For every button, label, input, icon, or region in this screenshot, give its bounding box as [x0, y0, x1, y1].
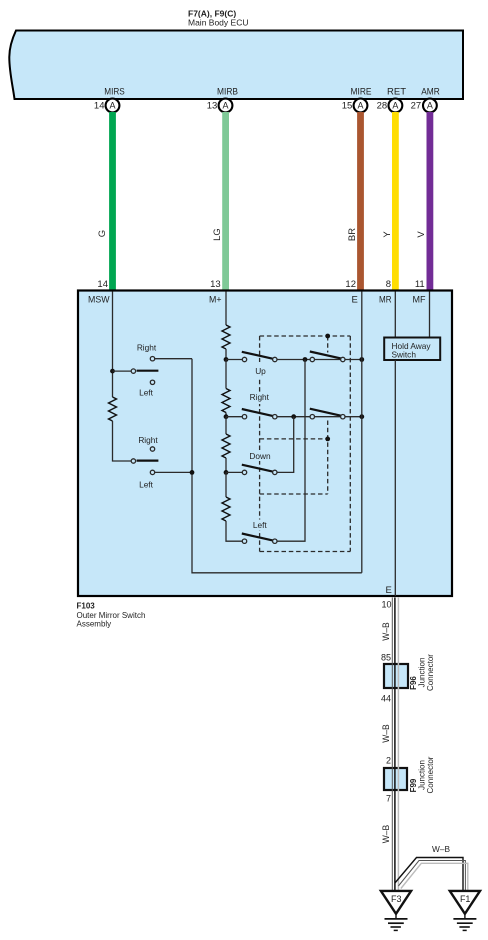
wire label 12 at box — [345, 279, 356, 290]
wire MR vertical to Hold Away Switch — [394, 292, 396, 338]
wire Up contact to E — [277, 359, 362, 361]
box pin label M+ — [209, 295, 222, 306]
switch Down pivot circle — [242, 470, 246, 474]
wire M+ vertical top — [225, 292, 227, 326]
switch S1 lever — [137, 370, 159, 372]
switch S2 Left contact — [150, 470, 154, 474]
ECU connector band F7/F9 Main Body ECU — [9, 31, 463, 100]
resistor R5 — [222, 497, 230, 521]
wire label 14 at box — [97, 279, 108, 290]
junction connector F96 — [381, 653, 408, 704]
svg-text:F3: F3 — [391, 894, 402, 904]
svg-text:Right: Right — [138, 435, 158, 445]
pin 13 connector A circle — [207, 99, 233, 113]
pin label MIRS — [104, 86, 125, 97]
svg-text:7: 7 — [386, 794, 391, 804]
svg-text:Switch: Switch — [392, 350, 417, 360]
svg-text:14: 14 — [97, 279, 108, 290]
svg-text:F103: F103 — [77, 602, 96, 611]
wire MSW vertical — [112, 292, 114, 398]
wire Y yellow RET to MR — [392, 112, 399, 290]
wire label 13 at box — [210, 279, 221, 290]
pin 14 connector A circle — [94, 99, 119, 113]
switch S1 Right contact — [150, 357, 154, 361]
box pin label MF — [413, 295, 426, 306]
resistor R2 (M+ top) — [222, 325, 230, 349]
label Main Body ECU — [188, 18, 248, 28]
node dot x305 Up row — [303, 357, 308, 362]
wire R4 to Down row — [225, 458, 227, 472]
wire LG light green MIRB to M+ — [222, 112, 229, 290]
switch Right2 lever — [310, 409, 342, 416]
svg-text:G: G — [97, 230, 108, 237]
switch Up contact — [273, 357, 277, 361]
node M+ dot Down row — [224, 470, 229, 475]
switch Right row: wire M+ to pivot — [226, 416, 242, 418]
wire S2 Left contact to vertical bus — [155, 471, 192, 473]
svg-text:11: 11 — [415, 279, 425, 290]
switch Left contact — [273, 539, 277, 543]
wire MF vertical to Hold Away Switch — [429, 292, 431, 338]
wire label W-B middle — [381, 724, 392, 743]
svg-text:Right: Right — [250, 392, 270, 402]
svg-text:W–B: W–B — [381, 825, 392, 844]
svg-text:Down: Down — [249, 451, 271, 461]
box pin label E — [351, 295, 357, 306]
node linkage dot y439 — [325, 437, 330, 442]
label Right (row) — [248, 392, 271, 404]
node linkage dot top — [325, 334, 330, 339]
wire label W-B branch — [432, 844, 450, 854]
svg-text:2: 2 — [386, 756, 391, 766]
switch Right contact — [273, 415, 277, 419]
label Down — [247, 451, 273, 462]
pin label AMR — [421, 86, 440, 97]
mechanical linkage dashed top horizontal — [260, 335, 351, 337]
switch S1 Left contact — [150, 380, 154, 384]
svg-text:RET: RET — [387, 86, 406, 97]
switch Up lever — [242, 352, 273, 359]
node bus dot at Left contact row — [190, 470, 195, 475]
label F7(A), F9(C) — [188, 9, 236, 19]
label Right (S1) — [137, 343, 157, 353]
label F96 — [409, 676, 418, 690]
svg-text:15: 15 — [342, 100, 353, 111]
wire R2 to Up row — [225, 349, 227, 360]
switch Right2 contact — [341, 415, 345, 419]
label 10 bottom pin — [381, 600, 391, 610]
svg-text:Left: Left — [139, 479, 154, 489]
wire M+ dot down — [225, 417, 227, 434]
hold away switch box — [384, 338, 440, 361]
svg-text:Up: Up — [255, 366, 266, 376]
junction connector F99 — [384, 756, 407, 804]
svg-text:Y: Y — [382, 231, 393, 238]
wire M+ dot down — [225, 472, 227, 497]
switch Left lever — [242, 534, 273, 541]
wire Left contact up to Up row — [277, 360, 305, 542]
label Right (S2) — [138, 435, 158, 445]
label Left (S2) — [139, 479, 154, 489]
switch Up2 contact — [341, 357, 345, 361]
svg-text:A: A — [427, 101, 433, 111]
switch S2 mirror select lower: pivot circle — [131, 459, 135, 463]
svg-text:M+: M+ — [209, 295, 222, 306]
wire label W-B upper — [381, 622, 392, 641]
wire Down contact up to Right row — [277, 417, 294, 473]
switch S2 Right contact — [150, 447, 154, 451]
wire label Y — [382, 231, 393, 238]
node dot E line Right row — [359, 414, 364, 419]
mechanical linkage dashed horizontal y494 — [260, 493, 328, 495]
wire vertical bus x192 to bottom — [192, 359, 362, 573]
node M+ dot Up row — [224, 357, 229, 362]
switch Up2 lever — [310, 352, 342, 359]
pin label RET — [387, 86, 406, 97]
svg-text:28: 28 — [377, 100, 388, 111]
svg-text:13: 13 — [210, 279, 221, 290]
svg-text:LG: LG — [212, 228, 223, 241]
svg-text:27: 27 — [411, 100, 422, 111]
svg-text:E: E — [351, 295, 357, 306]
svg-text:10: 10 — [381, 600, 391, 610]
switch S1 mirror select upper: pivot circle — [131, 369, 135, 373]
mechanical linkage dashed horizontal y439 — [260, 438, 328, 440]
switch Up row: wire M+ to pivot — [226, 359, 242, 361]
svg-text:12: 12 — [345, 279, 356, 290]
svg-text:V: V — [416, 231, 427, 238]
label E bottom pin — [385, 585, 391, 596]
ground F3 — [381, 891, 411, 931]
resistor R3 — [222, 389, 230, 413]
box pin label MR — [379, 295, 392, 306]
switch Left row: pivot circle — [242, 539, 246, 543]
box pin label MSW — [88, 295, 110, 306]
svg-text:13: 13 — [207, 100, 218, 111]
svg-text:MSW: MSW — [88, 295, 110, 306]
wire MSW resistor to switch2 — [113, 421, 132, 461]
svg-text:A: A — [222, 101, 228, 111]
svg-text:Left: Left — [139, 388, 154, 398]
mechanical linkage dashed bottom horizontal — [260, 551, 351, 553]
label Junction Connector (F99) — [418, 756, 436, 793]
svg-text:Connector: Connector — [426, 654, 435, 691]
svg-text:W–B: W–B — [432, 844, 450, 854]
wire label 8 at box — [386, 279, 391, 290]
svg-text:85: 85 — [381, 653, 391, 663]
wire label G — [97, 230, 108, 237]
svg-text:F1: F1 — [460, 894, 471, 904]
svg-text:BR: BR — [347, 228, 358, 241]
wire W-B branch to ground F1 — [395, 858, 468, 892]
wire E vertical — [361, 292, 363, 573]
node M+ dot Right row — [224, 414, 229, 419]
wire G green MIRS to MSW — [109, 112, 116, 290]
svg-text:Main Body ECU: Main Body ECU — [188, 18, 248, 28]
switch S2 lever — [137, 460, 159, 462]
svg-text:MIRE: MIRE — [351, 86, 372, 97]
switch Up pivot circle — [242, 357, 246, 361]
switch Down contact — [273, 470, 277, 474]
svg-text:Connector: Connector — [426, 756, 435, 793]
label Left (S1) — [139, 388, 154, 398]
svg-text:A: A — [109, 101, 115, 111]
label Junction Connector (F96) — [418, 654, 436, 691]
svg-text:8: 8 — [386, 279, 391, 290]
svg-text:AMR: AMR — [421, 86, 440, 97]
svg-text:Assembly: Assembly — [77, 619, 112, 628]
svg-text:14: 14 — [94, 100, 105, 111]
wire label W-B lower — [381, 825, 392, 844]
mechanical linkage dashed mid vertical upper — [327, 336, 329, 353]
svg-text:W–B: W–B — [381, 622, 392, 641]
pin 27 connector A circle — [411, 99, 437, 113]
wire label LG — [212, 228, 223, 241]
switch Down lever — [242, 465, 273, 472]
svg-text:44: 44 — [381, 694, 391, 704]
pin 15 connector A circle — [342, 99, 368, 113]
pin label MIRB — [217, 86, 238, 97]
svg-text:E: E — [385, 585, 391, 596]
wire W-B triple line box to ground F3 — [392, 598, 398, 892]
switch Right2 pivot circle — [310, 415, 314, 419]
switch Right lever — [242, 409, 273, 416]
node dot E line Up row — [359, 357, 364, 362]
wire R5 to Left row corner — [226, 521, 242, 541]
label Up — [252, 362, 270, 378]
switch Up2 pivot circle — [310, 357, 314, 361]
pin 28 connector A circle — [377, 99, 403, 113]
wire label BR — [347, 228, 358, 241]
wire MSW dot to switch1 — [113, 370, 132, 372]
ground F1 — [450, 891, 480, 931]
pin label MIRE — [351, 86, 372, 97]
svg-text:A: A — [357, 101, 363, 111]
resistor R1 (MSW) — [109, 397, 117, 421]
label Left (row) — [251, 520, 269, 531]
wire label 11 at box — [415, 279, 425, 290]
svg-text:A: A — [392, 101, 398, 111]
outer mirror switch assembly box F103 — [78, 291, 452, 597]
mechanical linkage dashed mid vertical lower — [327, 421, 329, 495]
wire below hold away switch to E pin — [394, 360, 396, 596]
svg-text:Right: Right — [137, 343, 157, 353]
label F99 — [409, 778, 418, 792]
resistor R4 — [222, 434, 230, 458]
node dot x293.7 Right row — [291, 414, 296, 419]
svg-text:W–B: W–B — [381, 724, 392, 743]
svg-text:MR: MR — [379, 295, 392, 306]
wire M+ dot down — [225, 360, 227, 389]
svg-text:MIRB: MIRB — [217, 86, 238, 97]
wire S1 Right contact to vertical bus — [155, 358, 192, 360]
switch Right pivot circle — [242, 415, 246, 419]
label F103 Outer Mirror Switch Assembly — [77, 602, 146, 629]
wire label V — [416, 231, 427, 238]
mechanical linkage dashed right vertical — [349, 336, 351, 552]
svg-text:MF: MF — [413, 295, 426, 306]
switch Down row: wire M+ to pivot — [226, 471, 242, 473]
wire BR brown MIRE to E — [357, 112, 364, 290]
svg-text:MIRS: MIRS — [104, 86, 125, 97]
node MSW junction dot — [110, 369, 115, 374]
mechanical linkage dashed left vertical — [259, 336, 261, 552]
wire V violet AMR to MF — [427, 112, 434, 290]
wire R3 to Right row — [225, 413, 227, 417]
wire Right contact to E — [277, 416, 362, 418]
svg-text:Left: Left — [253, 520, 268, 530]
